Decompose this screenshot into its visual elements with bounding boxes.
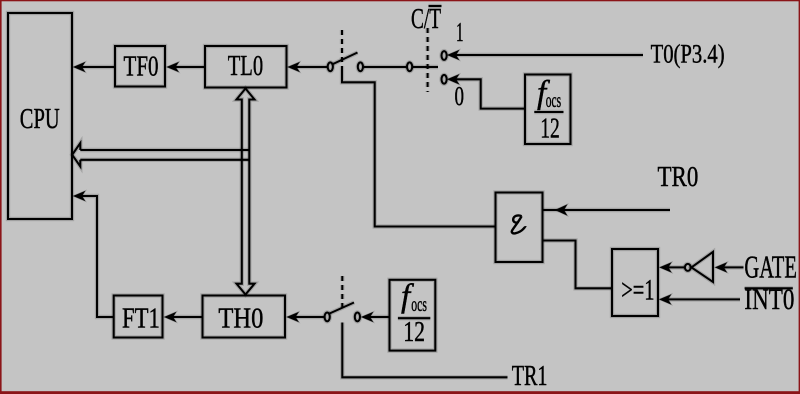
svg-text:FT1: FT1 xyxy=(122,303,160,335)
svg-text:12: 12 xyxy=(403,316,425,348)
svg-text:1: 1 xyxy=(456,17,464,47)
svg-text:ocs: ocs xyxy=(411,292,427,316)
svg-text:C/T: C/T xyxy=(411,3,441,35)
svg-text:0: 0 xyxy=(455,81,465,111)
svg-text:12: 12 xyxy=(540,112,560,144)
svg-text:CPU: CPU xyxy=(20,103,60,135)
svg-text:TR0: TR0 xyxy=(658,161,699,193)
svg-text:TR1: TR1 xyxy=(512,360,548,392)
svg-text:TH0: TH0 xyxy=(218,303,263,335)
svg-text:GATE: GATE xyxy=(744,250,797,285)
svg-text:INT0: INT0 xyxy=(744,283,794,316)
svg-text:T0(P3.4): T0(P3.4) xyxy=(651,38,725,68)
svg-text:ocs: ocs xyxy=(546,88,561,112)
svg-text:TL0: TL0 xyxy=(228,50,264,82)
svg-text:TF0: TF0 xyxy=(124,50,159,82)
svg-text:>=1: >=1 xyxy=(621,275,654,307)
